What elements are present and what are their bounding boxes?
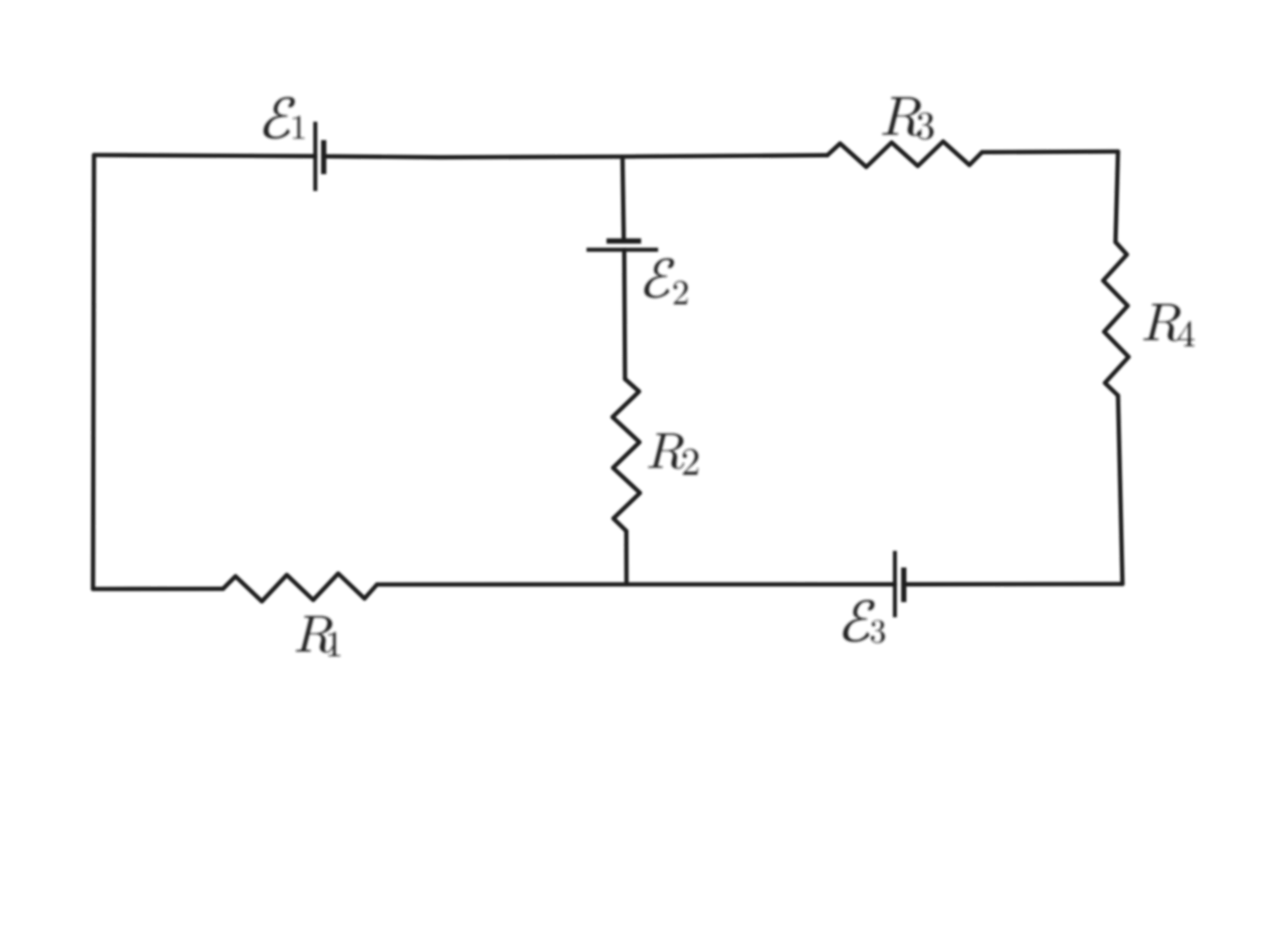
label R3 subscript 3 (917, 112, 933, 139)
label E3 (script E) (843, 600, 874, 642)
label E2 subscript 2 (674, 281, 688, 305)
battery E1 long plate (313, 122, 317, 191)
wire: middle branch, top node to battery E2 (623, 157, 624, 241)
label E1 subscript 1 (293, 116, 304, 139)
label R3 (882, 97, 921, 136)
label E1 (script E) (264, 97, 295, 139)
wire: right vertical upper (1116, 152, 1119, 243)
battery E2 long plate (587, 248, 659, 252)
wire: bottom, battery E3 to bottom-right corner (904, 582, 1123, 587)
resistor R2 (613, 379, 641, 531)
battery E3 long plate (893, 551, 897, 617)
label R2 subscript 2 (683, 449, 699, 475)
label E3 subscript 3 (871, 620, 885, 643)
label R1 subscript 1 (328, 632, 340, 656)
wire: bottom, R1 to battery E3 (377, 582, 895, 587)
label E2 (script E) (644, 258, 674, 298)
wire: top, battery E1 to resistor R3 (324, 155, 828, 157)
battery E3 short plate (901, 568, 906, 603)
label R4 (1143, 304, 1181, 341)
resistor R4 (1103, 242, 1128, 396)
label R4 subscript 4 (1178, 321, 1194, 346)
battery E1 short plate (321, 140, 326, 174)
wire: right vertical lower (1118, 396, 1123, 585)
wire: left vertical (93, 155, 94, 589)
wire: top, R3 to top-right corner (982, 149, 1118, 154)
wire: top, left corner to battery E1 (94, 155, 315, 156)
battery E2 short plate (607, 238, 642, 243)
resistor R1 (223, 574, 377, 602)
wire: middle branch, R2 to bottom node (624, 531, 629, 585)
wire: middle branch, battery E2 to resistor R2 (622, 250, 627, 379)
resistor R3 (827, 142, 982, 168)
label R1 (296, 616, 333, 653)
label R2 (648, 433, 684, 469)
wire: bottom, left corner to resistor R1 (93, 587, 223, 592)
